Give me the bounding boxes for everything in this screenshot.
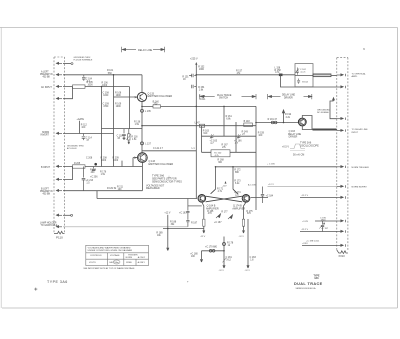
svg-text:+C 206: +C 206 <box>90 177 98 179</box>
svg-text:DRIVER: DRIVER <box>289 136 298 138</box>
network box A <box>295 64 313 87</box>
dimension DUAL TRACE SWITCH <box>200 94 256 99</box>
svg-text:CONTROLS: CONTROLS <box>90 255 102 257</box>
dimension DELAY LINE DRIVER <box>268 94 312 99</box>
svg-text:OSCILLOSCOPE: OSCILLOSCOPE <box>300 145 319 148</box>
svg-text:VOLTS: VOLTS <box>89 262 96 264</box>
svg-text:INVERT: INVERT <box>41 135 50 137</box>
svg-text:P210: P210 <box>339 254 346 258</box>
svg-text:+225 V: +225 V <box>190 58 198 61</box>
pin out 5 <box>337 166 345 168</box>
wire Q133 base from attenuator <box>114 96 138 98</box>
svg-text:SEMICONDUCTOR TYPES: SEMICONDUCTOR TYPES <box>152 180 182 183</box>
svg-text:+3 XX: +3 XX <box>302 221 309 223</box>
watermark see parts list center <box>152 173 182 183</box>
inductor L158 body <box>279 74 283 77</box>
svg-text:+C 179 680: +C 179 680 <box>205 246 218 248</box>
watermark right lower <box>300 142 319 148</box>
wire Q143 base stub <box>133 157 137 159</box>
svg-text:4-1.5: 4-1.5 <box>300 71 306 73</box>
svg-text:PREAMP IN: PREAMP IN <box>40 190 53 193</box>
wire to R105 <box>63 86 130 88</box>
ferrite bead L137 <box>141 142 144 145</box>
capacitor column C186 <box>186 199 189 227</box>
svg-text:SERIES B MODELS A: SERIES B MODELS A <box>296 287 317 290</box>
wire Q193 collector loop <box>302 116 312 130</box>
pin 2 A preamp in <box>56 74 62 76</box>
wire column x236 <box>235 122 237 152</box>
svg-text:+XXX: +XXX <box>302 243 308 245</box>
wire pin8 cap <box>315 221 337 231</box>
wire bead line <box>202 250 225 252</box>
arrow +V tick <box>333 98 335 101</box>
svg-text:+0.5 V: +0.5 V <box>282 146 289 149</box>
pin out 3 <box>337 118 345 120</box>
wire balance line y128.6 <box>102 128 143 130</box>
wire pin1 stub <box>63 63 71 65</box>
resistor R140 <box>153 105 161 108</box>
svg-text:-12 V: -12 V <box>245 270 251 272</box>
diode D176 <box>228 215 233 219</box>
pin out 7 <box>337 196 345 198</box>
svg-text:1000: 1000 <box>199 69 205 71</box>
register cross mark <box>34 288 37 291</box>
svg-text:50 mV CM: 50 mV CM <box>293 153 304 156</box>
svg-text:3A6: 3A6 <box>314 277 319 280</box>
wire tap x122 <box>121 161 123 167</box>
wire preamp B bus join <box>63 190 97 192</box>
connector J1 left interface dashed lines <box>54 57 65 234</box>
ferrite bead L135 <box>141 109 144 112</box>
wire Q133 emitter chain down <box>141 102 143 153</box>
transistor Q193 <box>298 118 306 126</box>
page bottom edge <box>2 307 397 309</box>
wire +225V column <box>195 64 197 106</box>
transistor Q143 <box>138 153 148 163</box>
svg-text:PLUG-IN INTERFACE: PLUG-IN INTERFACE <box>74 58 94 61</box>
switch section right edge <box>255 106 257 210</box>
svg-text:DUAL TRACE: DUAL TRACE <box>294 282 323 286</box>
wire lower switch bus <box>216 166 338 168</box>
svg-text:C 141 4.7: C 141 4.7 <box>153 148 164 150</box>
svg-text:VOLTAGE: VOLTAGE <box>110 254 120 257</box>
svg-text:1000: 1000 <box>101 160 107 162</box>
junction dot <box>94 163 97 166</box>
svg-text:C 208: C 208 <box>86 157 93 159</box>
capacitor C101 <box>82 75 86 81</box>
bead L178 <box>223 243 226 246</box>
wire column x=100 <box>101 87 103 167</box>
pin 6 B input <box>56 165 62 167</box>
svg-text:-12 V: -12 V <box>219 270 225 272</box>
wire B preamp line <box>63 190 142 192</box>
capacitor C206 <box>92 167 95 171</box>
beads L191 <box>271 121 274 124</box>
svg-text:NORM TRIGGER: NORM TRIGGER <box>352 167 370 169</box>
svg-text:B 148: B 148 <box>244 121 251 123</box>
wire drop to amp B <box>232 167 234 189</box>
svg-text:INPUT: INPUT <box>352 132 359 134</box>
trimmer C181 <box>222 258 226 262</box>
svg-text:SEE IMPORTANT NOTE AT TOP O: SEE IMPORTANT NOTE AT TOP OF WAVEFORM PA… <box>83 267 135 270</box>
svg-text:0.001: 0.001 <box>200 99 206 101</box>
svg-text:R 177: R 177 <box>221 211 228 213</box>
wire lamp line gray <box>63 226 188 228</box>
emitter resistor column R175 <box>242 202 246 233</box>
pin out 10 <box>337 244 345 246</box>
page right edge <box>396 27 398 308</box>
svg-text:R 205: R 205 <box>74 163 81 165</box>
wire Q143 collector down to B line <box>141 163 143 191</box>
svg-text:EMITTER FOLLOWER: EMITTER FOLLOWER <box>148 95 173 98</box>
svg-text:P110: P110 <box>56 236 63 240</box>
delay line cable upper <box>313 74 331 77</box>
wire norm line <box>63 133 114 135</box>
cap C184 on output <box>261 187 264 204</box>
node open circle2 <box>71 214 73 216</box>
base arrow Q133 <box>135 96 138 98</box>
svg-text:+12 V: +12 V <box>268 184 274 186</box>
wire A signal into Q164 base <box>97 198 197 200</box>
-12V arrow <box>225 181 227 184</box>
switch internal column R161 <box>223 106 225 136</box>
pin 10 lamp <box>56 226 62 228</box>
wire lower bus <box>163 228 204 230</box>
trimmer C166 <box>237 134 241 138</box>
left ground column <box>200 251 202 262</box>
svg-text:+C 198 0.001: +C 198 0.001 <box>306 240 320 242</box>
svg-text:4700: 4700 <box>103 106 109 108</box>
junction main feed <box>196 74 198 76</box>
wire link preamp to bus <box>96 191 98 199</box>
trimmer line <box>202 135 257 137</box>
delay line cable lower <box>313 129 337 131</box>
svg-text:R 191 47: R 191 47 <box>268 119 278 121</box>
svg-text:R 187: R 187 <box>191 222 198 224</box>
svg-text:TO GRATICULE: TO GRATICULE <box>41 224 58 227</box>
wire B top line <box>63 166 142 168</box>
pin 3 B signal <box>56 85 62 87</box>
capacitor C153 stub <box>192 85 197 89</box>
svg-text:B 164: B 164 <box>302 81 308 83</box>
svg-text:+C 184: +C 184 <box>266 196 274 198</box>
svg-text:+C 167: +C 167 <box>214 222 222 224</box>
node open circle <box>71 63 73 65</box>
connector J2 right interface dashed lines <box>337 58 348 250</box>
svg-text:TYPE 3A6: TYPE 3A6 <box>47 280 68 284</box>
svg-text:A PLUG-IN: A PLUG-IN <box>67 147 77 150</box>
watermark under Q143 <box>146 184 165 190</box>
cross coupling wires <box>206 189 243 202</box>
svg-text:UNDER CONDITIONS GIVEN ON DI: UNDER CONDITIONS GIVEN ON DIAGRAM <box>88 249 132 252</box>
emitter resistor column R165 <box>202 202 205 233</box>
pin 5 norm invert <box>56 132 62 134</box>
svg-text:453 BN: 453 BN <box>43 194 51 196</box>
wire through switch <box>202 151 257 153</box>
svg-text:EMITTER FOLLOWER: EMITTER FOLLOWER <box>149 163 174 166</box>
trimmer R118 <box>126 129 131 144</box>
svg-text:1000: 1000 <box>88 85 94 87</box>
pin 1 A signal <box>56 62 62 64</box>
wire driver base line <box>256 122 298 124</box>
svg-text:L147: L147 <box>195 122 201 124</box>
trimmer C162 <box>296 68 300 75</box>
pin 4 gnd <box>56 98 62 100</box>
cap B164 <box>297 79 300 84</box>
resistor R205 box <box>73 165 86 168</box>
pin out 4 <box>337 129 345 131</box>
svg-text:A ONLY: A ONLY <box>138 256 146 259</box>
capacitor C213 <box>82 167 86 191</box>
pin 9 spare <box>56 214 62 216</box>
wire emitter out line y106 <box>142 105 256 107</box>
svg-text:VOLTAGES AND WAVEFORMS OBTAIN: VOLTAGES AND WAVEFORMS OBTAINED <box>88 247 131 250</box>
base arrow Q143 <box>134 157 137 159</box>
ground arrow C181 <box>223 265 225 268</box>
svg-text:LAMP HOLDER: LAMP HOLDER <box>40 222 57 225</box>
pin out 1 <box>337 74 345 76</box>
wire through box <box>295 75 313 77</box>
wire pin4 up to B line <box>63 87 73 99</box>
wire pin9 stub <box>63 214 71 216</box>
dimension DELAY LINE <box>122 47 165 52</box>
page left edge <box>0 27 2 308</box>
svg-text:L 135: L 135 <box>145 111 151 113</box>
wire delay feed line <box>196 74 295 76</box>
watermark waveform figure <box>282 144 305 156</box>
wire bias corner <box>330 101 337 119</box>
resistor R105 box <box>73 85 86 88</box>
wire left column x201 <box>201 126 203 153</box>
svg-text:NORM: NORM <box>126 257 133 259</box>
diode D166 <box>216 214 221 218</box>
svg-text:+GATE: +GATE <box>77 118 85 121</box>
svg-text:453 BK: 453 BK <box>43 77 51 79</box>
svg-text:A LEFT: A LEFT <box>41 70 49 73</box>
svg-text:DELAY LINE: DELAY LINE <box>282 94 296 97</box>
svg-text:1000: 1000 <box>113 160 119 162</box>
svg-text:A C 185: A C 185 <box>248 184 257 187</box>
svg-text:+ C 185: + C 185 <box>267 164 276 166</box>
pin 8 B preamp in <box>56 190 62 192</box>
svg-text:-12V: -12V <box>222 186 227 188</box>
switch drop x196 <box>195 106 197 198</box>
junction dots <box>101 74 285 252</box>
svg-text:-12.2 V: -12.2 V <box>301 195 309 197</box>
pin out 6 <box>337 185 345 187</box>
wire Q143 emitter link <box>142 150 196 152</box>
svg-text:PREAMP IN: PREAMP IN <box>40 73 53 76</box>
svg-text:DUAL TRACE: DUAL TRACE <box>217 94 232 97</box>
capacitor C118 <box>122 129 126 140</box>
svg-text:A ONLY: A ONLY <box>138 261 146 264</box>
wire switched line y125.7 <box>142 125 256 127</box>
connector J1 bottom bracket <box>54 231 65 234</box>
wire column x=129.5 <box>129 87 131 129</box>
title block right <box>294 275 323 290</box>
trimmer C165 <box>210 134 214 138</box>
inductor L147 <box>199 124 204 127</box>
wire column x=110 <box>113 75 115 167</box>
wire norm line to pin <box>268 186 338 188</box>
svg-text:3-12: 3-12 <box>226 259 231 261</box>
svg-text:+C 197: +C 197 <box>321 228 329 230</box>
pin out 2 <box>337 86 345 88</box>
attenuator divider columns <box>102 75 130 167</box>
notes table box <box>86 245 149 265</box>
page top edge <box>0 26 397 28</box>
wire Q193 emitter <box>302 126 312 130</box>
wire pin10 <box>302 245 337 247</box>
wire Q133 collector up <box>141 75 143 93</box>
pin 7 B preamp shield <box>56 178 62 180</box>
svg-text:AMPL: AMPL <box>352 75 359 78</box>
wire drop to amp A <box>215 167 217 189</box>
svg-text:TO DELAY LINE: TO DELAY LINE <box>352 128 369 131</box>
svg-text:DRIVER: DRIVER <box>284 97 293 99</box>
svg-text:1000: 1000 <box>116 106 122 108</box>
svg-text:NO SIGNAL: NO SIGNAL <box>317 111 330 114</box>
B attenuator taps <box>122 158 133 167</box>
svg-text:1000: 1000 <box>103 95 109 97</box>
switch box SW160 <box>211 150 230 157</box>
junction at 280 <box>280 74 282 76</box>
svg-text:1000: 1000 <box>116 95 122 97</box>
beads L179 <box>209 250 212 253</box>
right cap column <box>247 219 249 268</box>
+225V arrow tap <box>282 110 284 123</box>
svg-text:SWITCH: SWITCH <box>219 98 228 100</box>
svg-text:1800: 1800 <box>321 220 327 222</box>
wire drop to second pin <box>281 75 338 87</box>
svg-text:NORM INVERT: NORM INVERT <box>352 187 368 189</box>
wire B side output to right pins <box>251 197 338 199</box>
capacitor C114 <box>82 134 86 141</box>
svg-text:MEASURED: MEASURED <box>146 187 160 190</box>
wire pin9 <box>300 231 337 233</box>
svg-text:DELAY LINE: DELAY LINE <box>138 49 153 52</box>
relay box B148 <box>244 123 253 127</box>
svg-text:R 181 5k: R 181 5k <box>107 188 117 190</box>
svg-text:TRIGGER: TRIGGER <box>128 254 138 256</box>
transistor Q133 <box>137 92 146 101</box>
svg-text:B INPUT: B INPUT <box>41 167 51 169</box>
transistor Q164 <box>198 195 206 203</box>
capacitor C151 stub <box>189 74 196 78</box>
wire emitter link <box>188 205 202 207</box>
wire drop arrow <box>167 229 169 251</box>
svg-text:AC INPUT: AC INPUT <box>41 86 52 89</box>
wire pin7 up <box>63 167 73 180</box>
svg-text:-12.2 V: -12.2 V <box>301 229 309 231</box>
svg-text:TO VERTICAL: TO VERTICAL <box>352 73 367 76</box>
arrow up <box>195 62 197 65</box>
svg-text:-12 V: -12 V <box>200 236 206 238</box>
svg-text:1000: 1000 <box>102 85 108 87</box>
svg-text:L 137: L 137 <box>145 144 151 146</box>
svg-text:-12 V: -12 V <box>239 236 245 238</box>
svg-text:+12 V: +12 V <box>164 213 171 215</box>
pin out 9 <box>337 230 345 232</box>
center column x224 <box>223 237 225 269</box>
wire A input line <box>63 74 142 76</box>
wire tap x133 <box>132 158 134 167</box>
connector J2 bottom bracket <box>337 250 348 254</box>
svg-text:FREE: FREE <box>126 262 132 264</box>
wire to pin <box>331 75 337 77</box>
svg-text:DELAY LINE: DELAY LINE <box>288 133 302 136</box>
transistor Q174 <box>242 195 250 203</box>
pin out 8 <box>337 220 345 222</box>
svg-text:+C 163: +C 163 <box>179 213 187 215</box>
